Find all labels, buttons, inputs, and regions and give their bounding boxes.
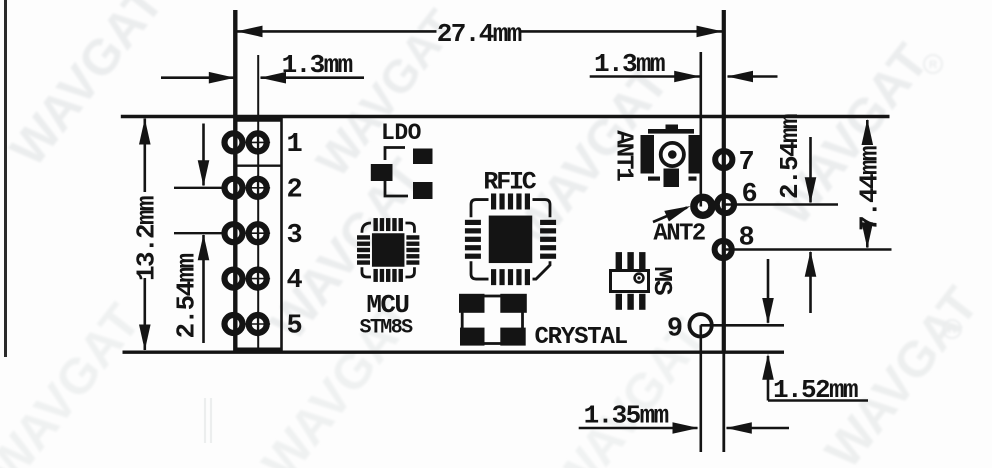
svg-text:13.2mm: 13.2mm	[132, 196, 162, 281]
svg-text:7.44mm: 7.44mm	[855, 146, 885, 231]
svg-text:2: 2	[287, 175, 302, 205]
svg-text:27.4mm: 27.4mm	[437, 19, 522, 49]
svg-text:ANT1: ANT1	[610, 130, 637, 181]
svg-text:1.35mm: 1.35mm	[584, 401, 669, 431]
svg-text:1.3mm: 1.3mm	[594, 49, 665, 79]
svg-text:R: R	[929, 59, 937, 71]
svg-text:1.3mm: 1.3mm	[282, 50, 353, 80]
svg-text:2.54mm: 2.54mm	[775, 114, 805, 199]
svg-text:5: 5	[287, 312, 302, 342]
svg-text:MCU: MCU	[366, 290, 408, 320]
svg-text:RFIC: RFIC	[483, 168, 536, 197]
svg-text:R: R	[948, 324, 956, 336]
svg-text:9: 9	[667, 314, 682, 344]
svg-text:ANT2: ANT2	[653, 221, 704, 248]
svg-text:CRYSTAL: CRYSTAL	[534, 324, 627, 351]
svg-text:3: 3	[287, 221, 302, 251]
svg-text:LDO: LDO	[381, 120, 421, 146]
svg-text:7: 7	[739, 148, 754, 178]
svg-text:2.54mm: 2.54mm	[172, 253, 202, 338]
svg-text:STM8S: STM8S	[359, 317, 413, 340]
svg-text:4: 4	[287, 266, 303, 296]
svg-text:MS: MS	[647, 266, 677, 295]
svg-text:1: 1	[287, 130, 303, 160]
svg-text:1.52mm: 1.52mm	[773, 375, 858, 405]
